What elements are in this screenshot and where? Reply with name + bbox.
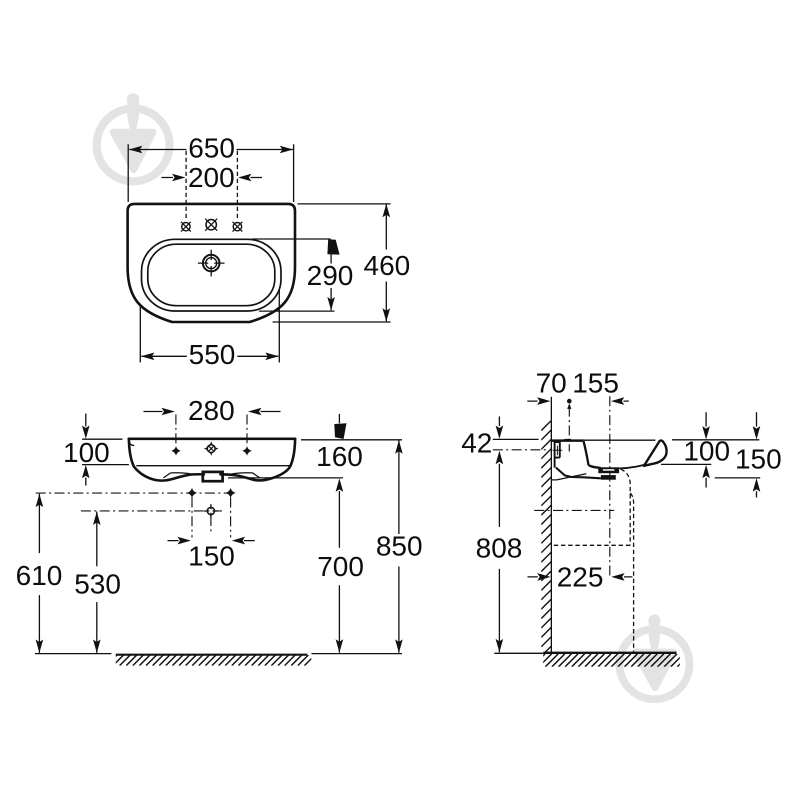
svg-text:160: 160	[316, 441, 363, 472]
svg-text:100: 100	[683, 436, 730, 467]
svg-text:200: 200	[188, 162, 235, 193]
svg-text:70: 70	[536, 367, 567, 398]
svg-text:225: 225	[557, 562, 604, 593]
svg-text:530: 530	[74, 569, 121, 600]
svg-text:150: 150	[735, 444, 782, 475]
svg-text:808: 808	[476, 533, 523, 564]
svg-text:155: 155	[572, 367, 619, 398]
svg-text:290: 290	[307, 260, 354, 291]
svg-text:550: 550	[189, 339, 236, 370]
svg-text:280: 280	[188, 395, 235, 426]
svg-text:610: 610	[16, 560, 63, 591]
svg-text:150: 150	[188, 541, 235, 572]
svg-text:700: 700	[317, 551, 364, 582]
svg-text:100: 100	[63, 437, 110, 468]
svg-text:650: 650	[188, 133, 235, 164]
svg-text:460: 460	[364, 250, 411, 281]
svg-text:42: 42	[461, 428, 492, 459]
svg-text:850: 850	[376, 531, 423, 562]
